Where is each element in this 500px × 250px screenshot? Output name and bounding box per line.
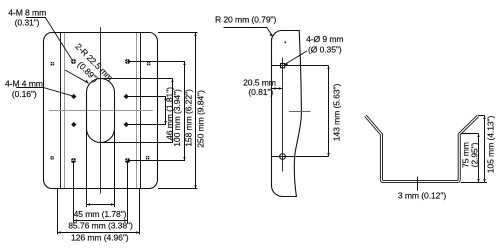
svg-text:105 mm (4.13"): 105 mm (4.13") <box>486 115 496 173</box>
svg-text:4-Ø 9 mm: 4-Ø 9 mm <box>306 34 343 44</box>
svg-text:(2.95"): (2.95") <box>470 142 480 167</box>
svg-text:143 mm (5.63"): 143 mm (5.63") <box>332 83 342 141</box>
svg-text:20.5 mm: 20.5 mm <box>243 77 276 87</box>
svg-text:126 mm (4.96"): 126 mm (4.96") <box>71 232 129 242</box>
svg-text:4-M 8 mm: 4-M 8 mm <box>8 7 46 17</box>
svg-text:250 mm (9.84"): 250 mm (9.84") <box>195 90 205 148</box>
svg-text:3 mm (0.12"): 3 mm (0.12") <box>398 191 446 201</box>
svg-text:(0.31"): (0.31") <box>15 18 40 28</box>
svg-text:(0.81"): (0.81") <box>248 87 273 97</box>
svg-text:4-M 4 mm: 4-M 4 mm <box>5 79 43 89</box>
svg-text:85.76 mm (3.38"): 85.76 mm (3.38") <box>68 220 133 230</box>
svg-text:158 mm (6.22"): 158 mm (6.22") <box>183 89 193 147</box>
svg-text:(Ø 0.35"): (Ø 0.35") <box>308 45 342 55</box>
svg-text:R 20 mm (0.79"): R 20 mm (0.79") <box>215 14 276 24</box>
svg-text:45 mm (1.78"): 45 mm (1.78") <box>74 209 127 219</box>
svg-text:(0.16"): (0.16") <box>12 89 37 99</box>
svg-text:100 mm (3.94"): 100 mm (3.94") <box>172 89 182 147</box>
